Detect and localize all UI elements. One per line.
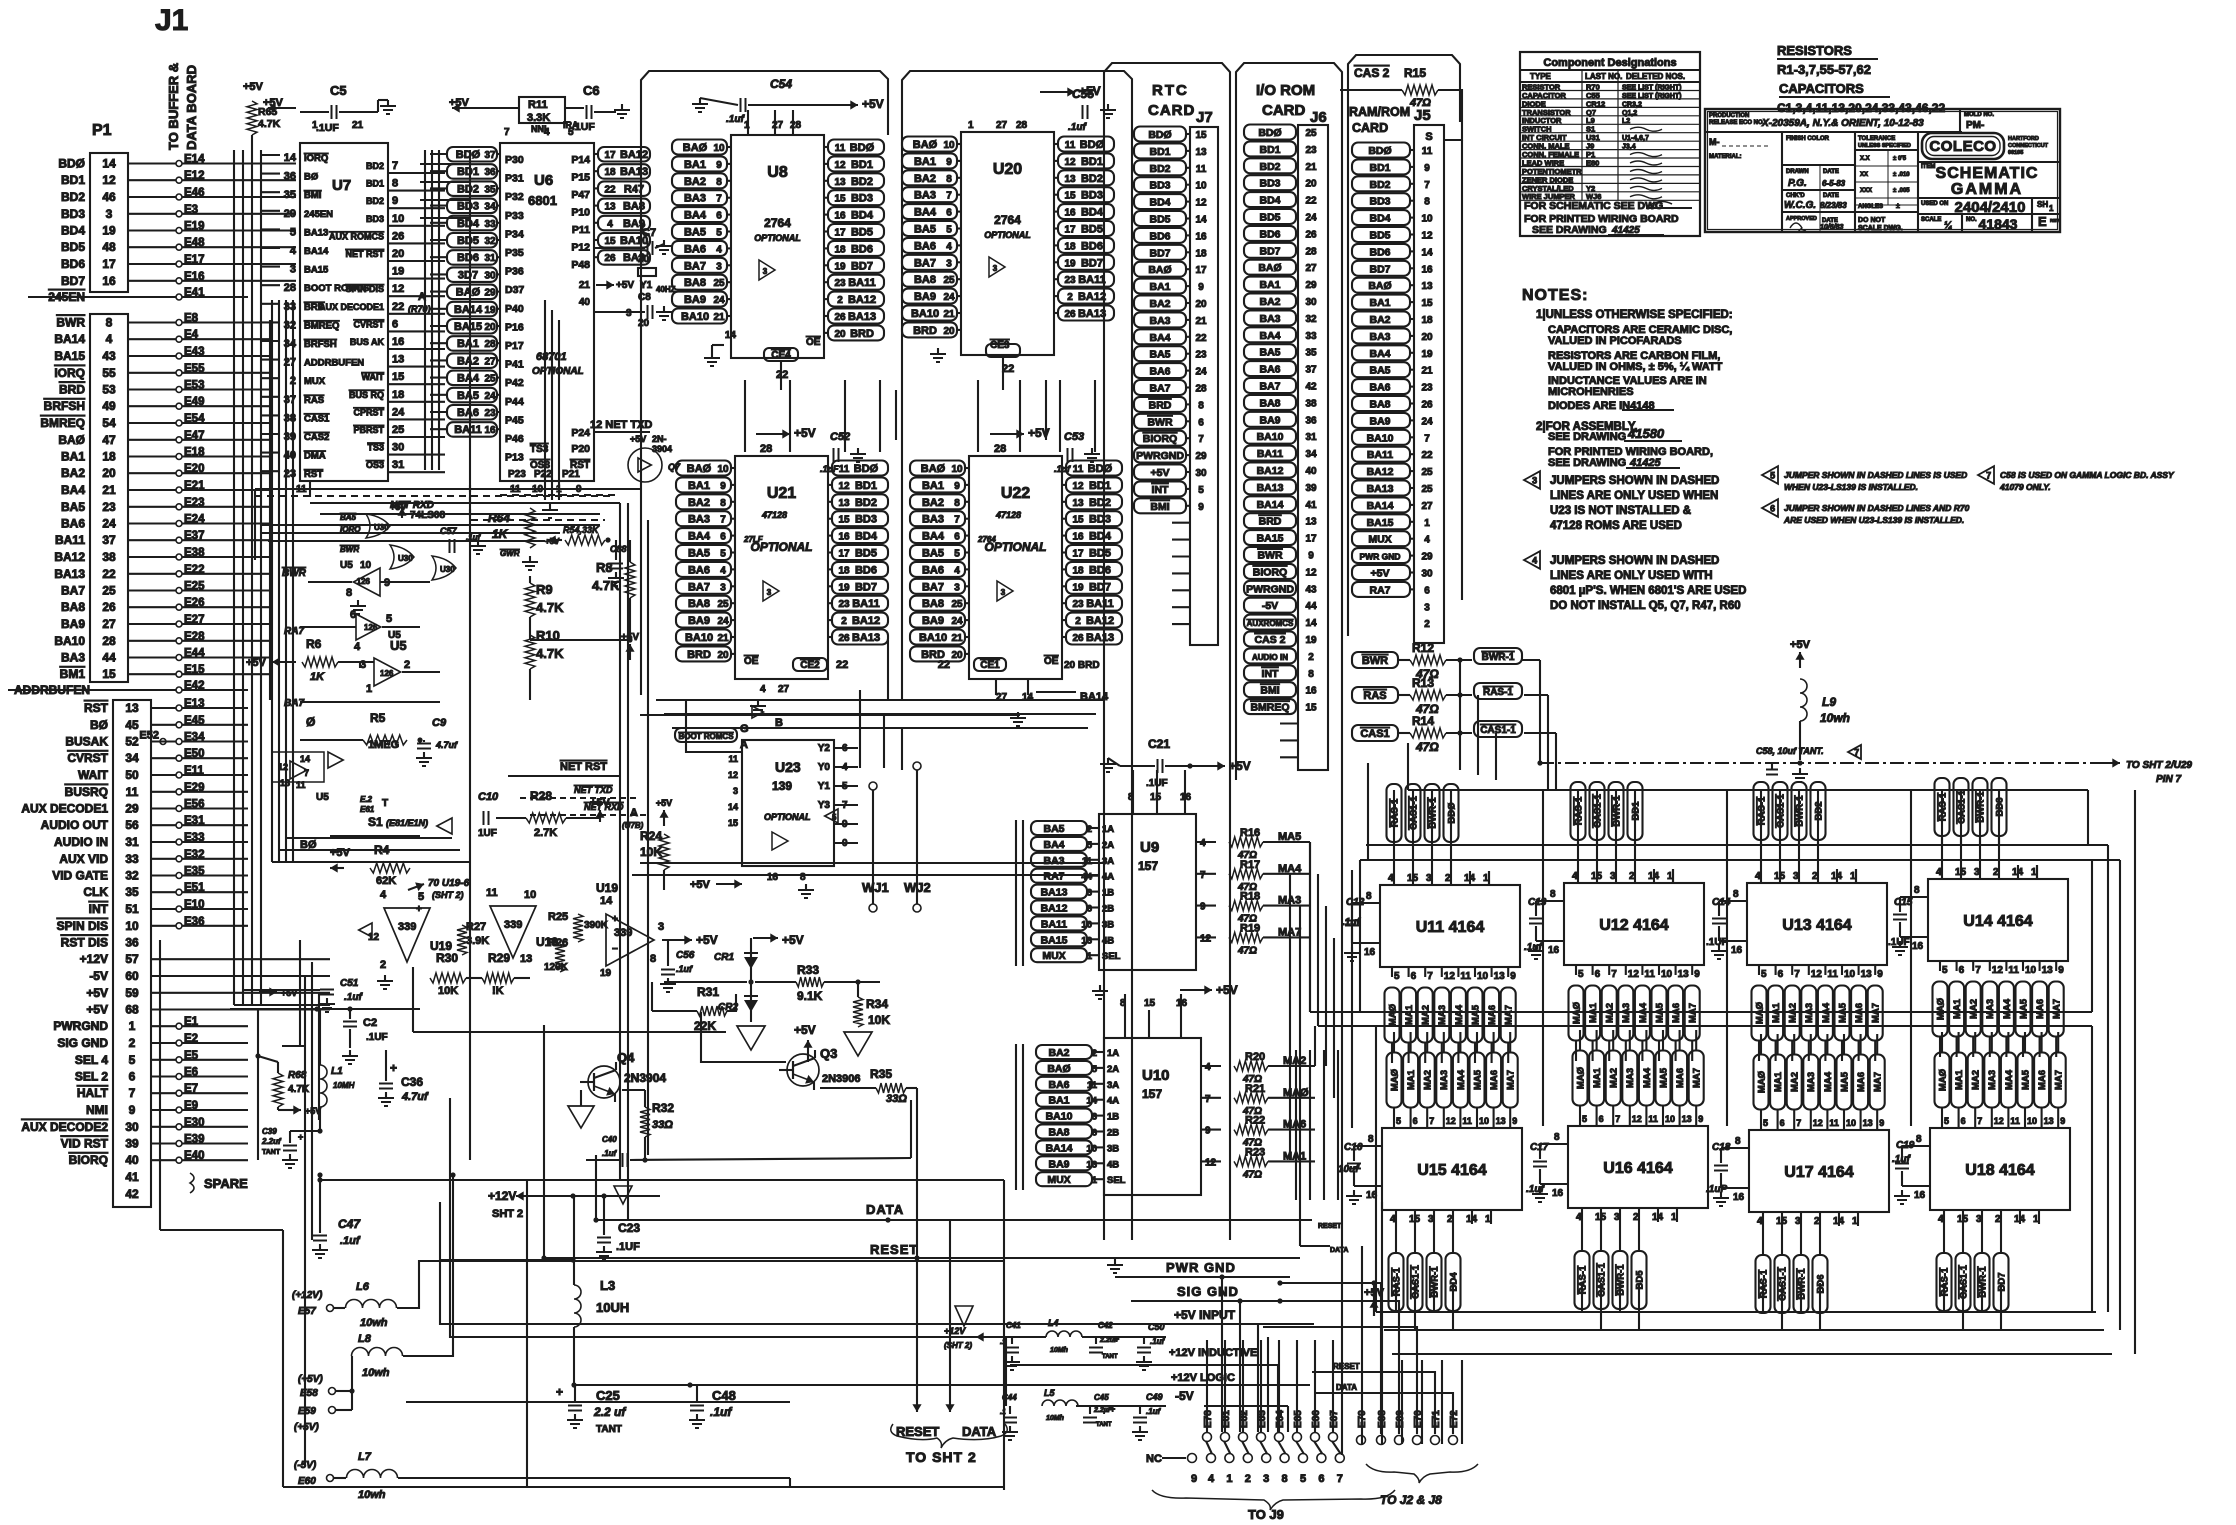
svg-text:+: +: [390, 1061, 397, 1075]
svg-text:1: 1: [366, 683, 372, 695]
svg-text:2A: 2A: [1107, 1064, 1119, 1075]
svg-text:BA9: BA9: [1259, 414, 1280, 426]
svg-text:14: 14: [1086, 1096, 1097, 1107]
svg-text:BRD: BRD: [687, 649, 711, 661]
svg-text:13: 13: [125, 701, 139, 715]
svg-text:+5V INPUT: +5V INPUT: [1174, 1308, 1236, 1322]
svg-text:SEE DRAWING: SEE DRAWING: [1548, 431, 1626, 443]
svg-text:BRD: BRD: [1259, 516, 1282, 528]
svg-text:BA13: BA13: [1367, 483, 1394, 495]
svg-text:S1: S1: [368, 815, 383, 829]
svg-text:BA1: BA1: [61, 450, 85, 464]
svg-text:8/23/83: 8/23/83: [1820, 201, 1847, 210]
svg-text:10: 10: [943, 140, 955, 151]
svg-text:BA13: BA13: [1078, 308, 1106, 320]
svg-text:BA9: BA9: [914, 291, 936, 303]
svg-text:38: 38: [1305, 398, 1317, 409]
svg-text:BA9: BA9: [688, 615, 710, 627]
svg-text:14: 14: [300, 754, 310, 764]
svg-text:BD2: BD2: [1149, 163, 1170, 175]
svg-text:U7: U7: [332, 177, 351, 194]
svg-text:BD5: BD5: [1259, 212, 1280, 224]
svg-text:DATA: DATA: [866, 1202, 904, 1217]
svg-text:C51: C51: [340, 978, 359, 989]
svg-text:HALT: HALT: [77, 1086, 109, 1100]
svg-text:21: 21: [102, 483, 116, 497]
svg-text:BA8: BA8: [914, 274, 936, 286]
svg-text:22: 22: [1305, 196, 1317, 207]
svg-text:43: 43: [102, 349, 116, 363]
svg-text:27: 27: [996, 120, 1008, 131]
svg-text:3: 3: [1532, 476, 1537, 486]
svg-text:CAS1: CAS1: [304, 413, 330, 424]
svg-text:BA15: BA15: [1041, 934, 1068, 946]
svg-text:25: 25: [484, 374, 496, 385]
svg-text:R4: R4: [374, 843, 390, 857]
svg-text:CAS1-1: CAS1-1: [1480, 725, 1516, 736]
svg-text:25: 25: [1421, 484, 1433, 495]
svg-text:35: 35: [284, 189, 296, 201]
svg-text:FOR SCHEMATIC SEE DWG: FOR SCHEMATIC SEE DWG: [1524, 200, 1663, 212]
svg-text:BA1: BA1: [1369, 297, 1390, 309]
svg-text:4: 4: [1532, 556, 1537, 566]
svg-text:UNLESS SPECIFIED: UNLESS SPECIFIED: [1858, 143, 1911, 149]
svg-text:BA4: BA4: [61, 483, 85, 497]
svg-text:25: 25: [102, 584, 116, 598]
svg-text:P15: P15: [571, 172, 590, 184]
svg-text:13: 13: [1086, 1159, 1097, 1170]
svg-text:DATA: DATA: [1336, 1383, 1357, 1392]
svg-text:BD5: BD5: [1081, 224, 1103, 236]
svg-text:31: 31: [484, 253, 496, 264]
svg-text:23: 23: [1064, 275, 1076, 286]
svg-text:30: 30: [125, 1120, 139, 1134]
svg-text:3: 3: [658, 921, 664, 933]
svg-text:BA4: BA4: [1043, 839, 1064, 851]
svg-text:MOLD NO.: MOLD NO.: [1964, 112, 1994, 118]
svg-text:-5V: -5V: [89, 969, 108, 983]
svg-text:BD1: BD1: [1081, 156, 1103, 168]
svg-text:14: 14: [728, 802, 738, 812]
svg-text:15: 15: [102, 667, 116, 681]
svg-text:+5V: +5V: [86, 1003, 108, 1017]
svg-text:5: 5: [290, 226, 296, 238]
svg-text:L7: L7: [358, 1451, 372, 1463]
svg-text:BA5: BA5: [61, 500, 85, 514]
svg-text:−: −: [612, 944, 618, 955]
svg-text:+5V: +5V: [1216, 983, 1238, 997]
svg-text:20: 20: [638, 318, 650, 329]
svg-text:26: 26: [1072, 633, 1084, 644]
svg-text:TYPE: TYPE: [1530, 72, 1552, 81]
svg-text:18: 18: [834, 244, 846, 255]
svg-text:13: 13: [1863, 1118, 1873, 1128]
svg-text:BA13: BA13: [54, 567, 85, 581]
svg-text:14: 14: [725, 330, 737, 341]
svg-text:W.C.G.: W.C.G.: [1784, 200, 1816, 211]
svg-text:CR1: CR1: [714, 952, 734, 963]
svg-text:BD4: BD4: [1259, 195, 1280, 207]
svg-text:25: 25: [951, 599, 963, 610]
svg-text:13: 13: [1496, 1116, 1506, 1126]
svg-text:41079 ONLY.: 41079 ONLY.: [1999, 482, 2051, 492]
svg-text:44: 44: [102, 651, 116, 665]
svg-text:7: 7: [1854, 748, 1859, 758]
svg-text:19: 19: [1421, 349, 1433, 360]
svg-text:BD3: BD3: [1081, 190, 1103, 202]
svg-text:2: 2: [129, 1036, 136, 1050]
svg-text:13: 13: [520, 953, 532, 965]
svg-text:P41: P41: [505, 359, 524, 371]
svg-text:BD6: BD6: [855, 564, 877, 576]
svg-text:R30: R30: [436, 951, 458, 965]
svg-text:8: 8: [650, 953, 656, 965]
svg-text:BA7: BA7: [284, 698, 304, 709]
svg-text:P33: P33: [505, 210, 524, 222]
svg-text:BD4: BD4: [1369, 213, 1390, 225]
svg-text:BA3: BA3: [1149, 315, 1170, 327]
svg-text:BA9: BA9: [61, 617, 85, 631]
svg-text:10: 10: [1661, 969, 1673, 980]
svg-text:30: 30: [484, 270, 496, 281]
svg-text:BA12: BA12: [1367, 466, 1394, 478]
svg-text:11: 11: [1073, 464, 1084, 475]
svg-text:2N3904: 2N3904: [624, 1071, 666, 1085]
svg-text:SH: SH: [2037, 200, 2048, 209]
svg-text:BA13: BA13: [1257, 482, 1284, 494]
svg-text:Q7: Q7: [668, 462, 681, 472]
svg-text:3: 3: [763, 267, 768, 276]
svg-text:31: 31: [125, 835, 139, 849]
svg-text:+5V: +5V: [696, 933, 718, 947]
svg-text:P10: P10: [571, 207, 590, 219]
svg-text:Ø: Ø: [306, 715, 315, 729]
svg-text:BA15: BA15: [1257, 533, 1284, 545]
svg-text:40: 40: [125, 1153, 139, 1167]
svg-text:CARD: CARD: [1262, 102, 1305, 119]
svg-text:BA14: BA14: [1046, 1142, 1073, 1154]
svg-text:4.7K: 4.7K: [288, 1084, 310, 1095]
svg-text:2N3906: 2N3906: [822, 1073, 861, 1085]
svg-text:57: 57: [125, 952, 139, 966]
svg-text:+5V: +5V: [1151, 467, 1170, 479]
svg-text:U16 4164: U16 4164: [1603, 1160, 1672, 1177]
svg-text:APPROVED: APPROVED: [1786, 216, 1817, 222]
svg-text:BA2: BA2: [1048, 1047, 1069, 1059]
svg-text:7: 7: [716, 194, 722, 205]
svg-text:20: 20: [638, 254, 650, 265]
svg-text:BIORQ: BIORQ: [1253, 566, 1287, 578]
svg-text:13: 13: [1064, 174, 1076, 185]
svg-text:+5V: +5V: [390, 502, 406, 512]
svg-text:19: 19: [1064, 258, 1076, 269]
svg-text:BA2: BA2: [61, 466, 85, 480]
svg-text:22: 22: [392, 301, 404, 313]
svg-text:27: 27: [1421, 501, 1433, 512]
svg-text:245EN: 245EN: [304, 209, 333, 220]
svg-text:SCHEMATIC: SCHEMATIC: [1936, 165, 2039, 182]
svg-text:+12V INDUCTIVE: +12V INDUCTIVE: [1169, 1347, 1257, 1359]
svg-text:P1: P1: [92, 122, 112, 139]
svg-text:47Ω: 47Ω: [1242, 1169, 1262, 1180]
svg-text:40: 40: [579, 297, 591, 308]
svg-text:48: 48: [102, 240, 116, 254]
svg-text:VID RST: VID RST: [61, 1137, 109, 1151]
svg-text:4: 4: [1424, 535, 1430, 546]
svg-text:MA4: MA4: [1456, 1069, 1467, 1090]
svg-text:AUX DECODE2: AUX DECODE2: [21, 1120, 108, 1134]
svg-text:BWR: BWR: [1257, 550, 1282, 562]
svg-text:MAØ: MAØ: [1935, 998, 1946, 1020]
svg-text:11: 11: [839, 464, 850, 475]
svg-text:BA2: BA2: [688, 497, 710, 509]
svg-text:44: 44: [1305, 601, 1317, 612]
svg-text:12: 12: [1811, 969, 1823, 980]
svg-text:CE4: CE4: [771, 350, 791, 361]
svg-text:26: 26: [604, 253, 616, 264]
svg-text:JUMPERS SHOWN IN DASHED: JUMPERS SHOWN IN DASHED: [1550, 555, 1719, 567]
svg-text:13: 13: [1678, 969, 1690, 980]
svg-text:5: 5: [954, 549, 960, 560]
svg-text:BA6: BA6: [1369, 382, 1390, 394]
svg-text:C88: C88: [610, 544, 627, 554]
svg-text:11: 11: [1827, 969, 1838, 980]
svg-text:BA5: BA5: [1043, 823, 1064, 835]
svg-text:16: 16: [102, 274, 116, 288]
svg-text:R29: R29: [488, 951, 510, 965]
svg-text:BD6: BD6: [61, 257, 85, 271]
svg-text:C40: C40: [602, 1135, 617, 1144]
svg-text:7: 7: [304, 768, 309, 778]
svg-text:R54,33K: R54,33K: [563, 525, 600, 535]
svg-text:18: 18: [838, 565, 850, 576]
svg-text:TO SHT 2: TO SHT 2: [906, 1449, 977, 1465]
svg-text:MA2: MA2: [1790, 1072, 1801, 1092]
svg-text:35: 35: [484, 184, 496, 195]
svg-text:P32: P32: [505, 191, 524, 203]
svg-text:26: 26: [1064, 309, 1076, 320]
svg-text:BD7: BD7: [1089, 581, 1111, 593]
svg-text:2: 2: [1245, 1473, 1251, 1485]
svg-text:19: 19: [102, 224, 116, 238]
svg-text:10: 10: [713, 143, 725, 154]
svg-text:BD5: BD5: [61, 240, 85, 254]
svg-text:16: 16: [1305, 686, 1317, 697]
svg-text:12: 12: [834, 160, 846, 171]
svg-text:16: 16: [1064, 208, 1076, 219]
svg-text:4: 4: [354, 641, 361, 653]
svg-text:7: 7: [1977, 1116, 1982, 1126]
svg-text:BA6: BA6: [1048, 1079, 1069, 1091]
svg-text:BD7: BD7: [1259, 245, 1280, 257]
svg-text:U19: U19: [596, 881, 618, 895]
svg-text:4: 4: [1208, 1473, 1215, 1485]
svg-text:C2: C2: [363, 1017, 377, 1029]
svg-text:BA2: BA2: [684, 176, 706, 188]
svg-text:120K: 120K: [544, 962, 569, 973]
svg-text:20: 20: [392, 248, 404, 260]
svg-text:20: 20: [102, 466, 116, 480]
svg-text:19: 19: [600, 968, 612, 979]
svg-text:7: 7: [504, 127, 510, 138]
svg-text:28: 28: [1305, 246, 1317, 257]
svg-text:+5V: +5V: [656, 798, 672, 808]
svg-text:(R70): (R70): [408, 304, 431, 314]
svg-text:L9: L9: [1822, 695, 1836, 709]
svg-text:BD7: BD7: [851, 260, 873, 272]
svg-text:BDØ: BDØ: [1258, 127, 1281, 139]
svg-text:5: 5: [720, 549, 726, 560]
svg-text:15: 15: [728, 818, 738, 828]
svg-text:8: 8: [1198, 400, 1204, 411]
svg-text:7: 7: [1424, 433, 1430, 444]
svg-text:MA6: MA6: [1487, 1005, 1498, 1025]
svg-text:157: 157: [1142, 1087, 1162, 1101]
svg-text:22K: 22K: [694, 1019, 716, 1033]
svg-text:E78: E78: [1203, 1410, 1214, 1428]
svg-text:44: 44: [1081, 872, 1092, 883]
svg-text:32: 32: [484, 236, 496, 247]
svg-text:E69: E69: [1395, 1410, 1406, 1428]
svg-text:.1uf: .1uf: [1054, 464, 1071, 474]
svg-text:BA9: BA9: [922, 615, 944, 627]
svg-text:BMI: BMI: [304, 190, 321, 201]
svg-text:C58, 10uf TANT.: C58, 10uf TANT.: [1756, 746, 1824, 756]
svg-text:BA10: BA10: [54, 634, 85, 648]
svg-text:WHEN U23-LS139 IS INSTALLED.: WHEN U23-LS139 IS INSTALLED.: [1784, 482, 1918, 492]
svg-text:PRODUCTION: PRODUCTION: [1709, 113, 1749, 119]
svg-text:Y0: Y0: [818, 762, 831, 773]
svg-text:35: 35: [125, 885, 139, 899]
svg-text:BUS AK: BUS AK: [350, 337, 385, 347]
svg-text:AUDIO IN: AUDIO IN: [54, 835, 108, 849]
svg-text:U21: U21: [767, 485, 796, 502]
svg-text:Y2: Y2: [818, 743, 831, 754]
svg-text:12: 12: [728, 770, 738, 780]
svg-text:139: 139: [772, 779, 792, 793]
svg-text:12: 12: [1195, 198, 1207, 209]
svg-text:3: 3: [1087, 888, 1092, 899]
svg-text:70 U19-6: 70 U19-6: [428, 878, 470, 889]
svg-text:LINES ARE ONLY USED WITH: LINES ARE ONLY USED WITH: [1550, 570, 1713, 582]
svg-text:1: 1: [1424, 518, 1430, 529]
svg-text:C16: C16: [1344, 1142, 1363, 1153]
svg-text:BD4: BD4: [855, 531, 878, 543]
svg-text:.1UF: .1UF: [572, 121, 595, 133]
svg-text:BD5: BD5: [1149, 214, 1170, 226]
svg-text:OPTIONAL: OPTIONAL: [764, 812, 811, 822]
svg-text:BAØ: BAØ: [1258, 262, 1281, 274]
svg-text:E: E: [2038, 214, 2047, 229]
svg-text:E65: E65: [1293, 1410, 1304, 1428]
svg-text:8: 8: [1366, 891, 1372, 902]
svg-text:26: 26: [838, 633, 850, 644]
svg-text:30: 30: [392, 442, 404, 454]
svg-text:24: 24: [1421, 416, 1433, 427]
svg-text:BA11: BA11: [1078, 274, 1106, 286]
svg-text:INT: INT: [89, 902, 109, 916]
svg-text:15: 15: [1144, 998, 1156, 1009]
svg-text:BD4: BD4: [61, 224, 85, 238]
svg-text:JUMPER SHOWN IN DASHED LINES I: JUMPER SHOWN IN DASHED LINES IS USED: [1784, 470, 1967, 480]
svg-text:CHK'D: CHK'D: [1786, 193, 1805, 199]
svg-text:35: 35: [1305, 348, 1317, 359]
svg-text:BA11: BA11: [55, 533, 85, 547]
svg-text:28: 28: [760, 443, 772, 455]
svg-text:(+5V): (+5V): [298, 1374, 323, 1385]
svg-text:47Ω: 47Ω: [1415, 740, 1439, 754]
svg-text:60: 60: [125, 969, 139, 983]
svg-text:11: 11: [835, 143, 846, 154]
svg-text:23: 23: [838, 599, 850, 610]
svg-text:HARTFORD: HARTFORD: [2008, 136, 2039, 142]
svg-text:CAS2: CAS2: [304, 432, 329, 443]
svg-text:NO.: NO.: [1966, 217, 1977, 223]
svg-text:BRD: BRD: [1149, 399, 1172, 411]
svg-text:PWR GND: PWR GND: [1359, 552, 1400, 562]
svg-text:MA3: MA3: [1437, 1005, 1448, 1025]
svg-text:62K: 62K: [376, 875, 396, 887]
svg-text:29: 29: [484, 288, 496, 299]
svg-text:MA7: MA7: [2054, 1070, 2065, 1090]
svg-text:37: 37: [484, 150, 496, 161]
svg-text:USED ON: USED ON: [1921, 201, 1948, 207]
svg-text:U14 4164: U14 4164: [1963, 913, 2032, 930]
svg-text:± .010: ± .010: [1893, 172, 1910, 178]
svg-text:7: 7: [954, 515, 960, 526]
svg-text:BD2: BD2: [457, 183, 479, 195]
svg-text:BA13: BA13: [304, 227, 328, 238]
svg-text:10K: 10K: [868, 1013, 890, 1027]
svg-text:33Ω: 33Ω: [886, 1093, 907, 1105]
svg-text:J5: J5: [1414, 107, 1431, 124]
svg-text:16: 16: [392, 336, 404, 348]
svg-text:10: 10: [1844, 969, 1856, 980]
svg-text:27: 27: [772, 120, 784, 131]
svg-text:C49: C49: [1146, 1392, 1163, 1402]
svg-text:23: 23: [102, 500, 116, 514]
svg-text:BA10: BA10: [919, 632, 947, 644]
svg-text:AUXROMCS: AUXROMCS: [1247, 619, 1294, 628]
svg-text:4: 4: [544, 127, 550, 138]
svg-text:13: 13: [838, 498, 850, 509]
svg-text:NET RST: NET RST: [345, 249, 384, 259]
svg-text:R24: R24: [640, 829, 662, 843]
svg-text:5: 5: [832, 813, 837, 822]
svg-text:22: 22: [938, 659, 950, 671]
svg-text:LAST NO.: LAST NO.: [1585, 72, 1622, 81]
svg-text:R12: R12: [1412, 641, 1434, 655]
svg-text:IORQ: IORQ: [304, 153, 328, 164]
svg-text:2B: 2B: [1102, 904, 1114, 915]
svg-text:11: 11: [2008, 965, 2019, 976]
svg-text:BD4: BD4: [851, 210, 874, 222]
svg-text:23: 23: [1072, 599, 1084, 610]
svg-text:8: 8: [1282, 1473, 1288, 1485]
svg-text:19: 19: [1072, 582, 1084, 593]
svg-text:BD5: BD5: [851, 227, 873, 239]
svg-text:.1uF: .1uF: [820, 464, 839, 474]
svg-text:J6: J6: [1310, 109, 1327, 126]
svg-text:BD4: BD4: [457, 218, 480, 230]
svg-text:NET RST: NET RST: [560, 761, 607, 773]
svg-text:BA7: BA7: [914, 257, 936, 269]
svg-text:U30: U30: [374, 523, 389, 532]
svg-text:R8: R8: [596, 560, 613, 575]
svg-text:WAIT: WAIT: [78, 768, 109, 782]
svg-text:SEE DRAWING: SEE DRAWING: [1548, 457, 1626, 469]
svg-text:24: 24: [717, 616, 729, 627]
